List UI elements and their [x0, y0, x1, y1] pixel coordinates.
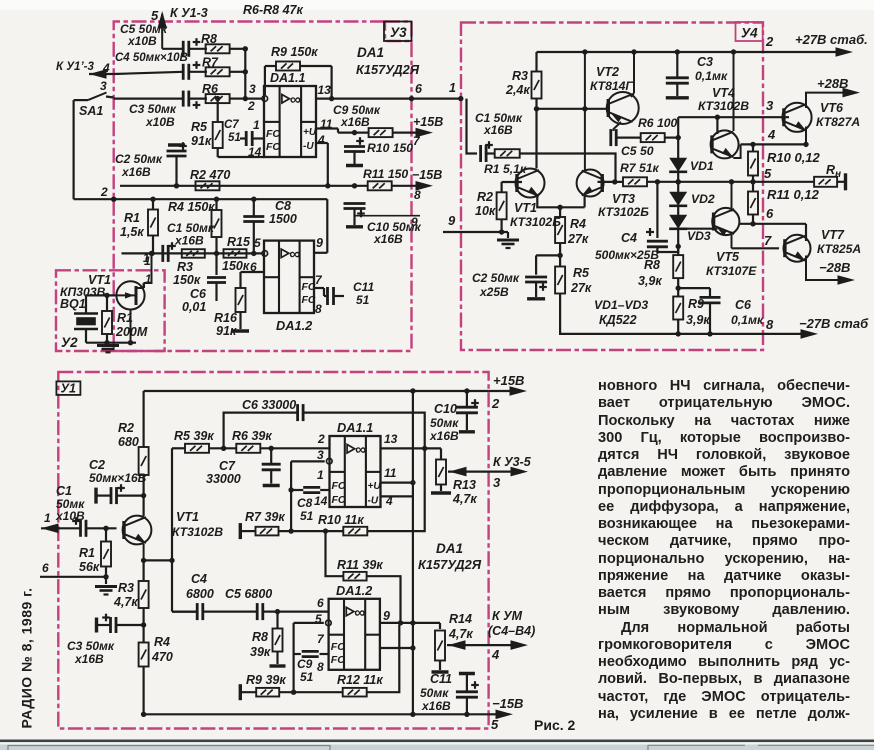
svg-text:R11 39к: R11 39к [337, 558, 383, 572]
svg-text:VT6: VT6 [820, 101, 844, 115]
svg-text:С4: С4 [621, 231, 637, 245]
svg-text:VD1–VD3: VD1–VD3 [594, 298, 648, 312]
svg-text:У4: У4 [741, 26, 758, 41]
svg-text:R15: R15 [227, 235, 251, 249]
svg-text:R16: R16 [214, 311, 238, 325]
svg-text:56к: 56к [79, 560, 100, 574]
svg-text:470: 470 [151, 650, 173, 664]
svg-text:С8: С8 [297, 496, 313, 510]
svg-text:С2: С2 [89, 458, 105, 472]
svg-text:27к: 27к [570, 281, 592, 295]
svg-text:х16В: х16В [174, 234, 204, 248]
svg-text:50мк: 50мк [420, 686, 449, 700]
svg-text:С8: С8 [275, 199, 291, 213]
svg-text:5: 5 [491, 717, 499, 732]
svg-text:R5 39к: R5 39к [174, 429, 214, 443]
svg-text:КД522: КД522 [599, 313, 637, 327]
svg-text:51: 51 [356, 293, 370, 307]
svg-text:3: 3 [317, 448, 324, 462]
svg-text:+27В стаб.: +27В стаб. [795, 32, 868, 47]
svg-text:6: 6 [415, 82, 423, 96]
svg-text:91к: 91к [216, 324, 237, 338]
svg-text:DA1.2: DA1.2 [336, 583, 372, 598]
svg-text:BQ1: BQ1 [60, 297, 86, 311]
svg-text:150к: 150к [173, 273, 201, 287]
svg-text:R3: R3 [512, 69, 528, 83]
svg-text:КТ3102В: КТ3102В [698, 99, 749, 113]
svg-text:5: 5 [254, 236, 261, 250]
svg-text:х16В: х16В [340, 115, 370, 129]
svg-text:R11 150: R11 150 [363, 167, 408, 181]
svg-text:VT2: VT2 [596, 65, 619, 79]
svg-text:КТ827А: КТ827А [816, 115, 860, 129]
svg-text:R7 39к: R7 39к [245, 510, 285, 524]
svg-text:R6-R8 47к: R6-R8 47к [243, 3, 303, 17]
svg-text:К157УД2Я: К157УД2Я [418, 557, 482, 572]
svg-text:К157УД2Я: К157УД2Я [356, 62, 420, 77]
svg-text:3: 3 [766, 98, 774, 113]
svg-text:FC: FC [266, 141, 280, 153]
svg-text:4,7к: 4,7к [452, 492, 477, 506]
svg-text:DA1: DA1 [436, 541, 463, 556]
svg-text:10к: 10к [475, 204, 496, 218]
svg-text:9: 9 [383, 609, 390, 623]
svg-text:1500: 1500 [269, 212, 297, 226]
svg-text:51: 51 [300, 670, 314, 684]
svg-text:К У1ʼ-3: К У1ʼ-3 [56, 61, 94, 73]
svg-text:FC: FC [332, 480, 346, 492]
svg-text:R10 0,12: R10 0,12 [767, 150, 821, 165]
svg-text:9: 9 [448, 213, 456, 228]
svg-text:1: 1 [145, 274, 151, 286]
svg-text:х16В: х16В [421, 699, 451, 713]
svg-text:∞: ∞ [289, 246, 300, 263]
svg-text:FC: FC [302, 294, 316, 306]
svg-text:R6 100: R6 100 [638, 116, 678, 130]
svg-text:х25В: х25В [479, 285, 509, 299]
svg-text:13: 13 [318, 83, 332, 97]
svg-text:VT3: VT3 [612, 192, 635, 206]
svg-text:−15В: −15В [492, 696, 523, 711]
svg-text:680: 680 [118, 435, 139, 449]
svg-text:х16В: х16В [429, 429, 459, 443]
svg-text:R7: R7 [202, 56, 219, 70]
svg-text:27к: 27к [567, 232, 589, 246]
svg-text:VT7: VT7 [821, 228, 845, 242]
svg-text:R4 150к: R4 150к [168, 200, 215, 214]
svg-text:5: 5 [151, 8, 159, 23]
svg-text:DA1: DA1 [357, 45, 384, 60]
svg-text:VT5: VT5 [716, 250, 740, 264]
svg-text:КТ825А: КТ825А [817, 242, 861, 256]
svg-text:9: 9 [411, 215, 418, 229]
svg-text:9: 9 [316, 236, 323, 250]
svg-text:R9 39к: R9 39к [246, 673, 286, 687]
svg-text:R7 51к: R7 51к [620, 161, 660, 175]
svg-text:VD1: VD1 [690, 159, 714, 173]
svg-text:51: 51 [300, 509, 314, 523]
svg-text:R9 150к: R9 150к [271, 45, 318, 59]
svg-text:+15В: +15В [413, 115, 443, 129]
svg-text:6: 6 [42, 561, 49, 575]
svg-text:1: 1 [317, 468, 324, 482]
svg-text:91к: 91к [191, 134, 212, 148]
svg-text:VT4: VT4 [712, 86, 735, 100]
svg-text:5: 5 [764, 166, 772, 181]
svg-text:7: 7 [764, 233, 772, 248]
svg-text:х10В: х10В [145, 115, 175, 129]
svg-text:С6 33000: С6 33000 [242, 398, 296, 412]
svg-text:FC: FC [331, 654, 345, 666]
svg-text:4: 4 [767, 127, 776, 142]
svg-text:С10: С10 [434, 402, 457, 416]
svg-text:3: 3 [100, 79, 107, 93]
svg-text:4,7к: 4,7к [113, 595, 138, 609]
svg-text:С5 50: С5 50 [621, 144, 654, 158]
svg-text:R6: R6 [202, 82, 219, 96]
svg-text:6800: 6800 [186, 587, 214, 601]
svg-text:R11 0,12: R11 0,12 [767, 187, 820, 202]
svg-text:∞: ∞ [354, 604, 365, 621]
svg-text:С3: С3 [697, 55, 713, 69]
svg-text:К У1-3: К У1-3 [170, 6, 208, 20]
svg-text:РАДИО № 8, 1989 г.: РАДИО № 8, 1989 г. [19, 588, 35, 729]
svg-text:14: 14 [314, 494, 328, 508]
svg-text:−28В: −28В [819, 260, 850, 275]
svg-text:У1: У1 [61, 382, 76, 396]
svg-text:1,5к: 1,5к [120, 225, 144, 239]
svg-text:-U: -U [303, 141, 314, 152]
svg-text:33000: 33000 [206, 472, 241, 486]
svg-text:R5: R5 [191, 120, 208, 134]
svg-text:11: 11 [384, 466, 397, 480]
svg-text:К УМ: К УМ [492, 609, 523, 623]
svg-text:С11: С11 [353, 280, 374, 294]
svg-text:R10 150: R10 150 [367, 141, 413, 155]
svg-text:R13: R13 [453, 478, 476, 492]
svg-text:VD2: VD2 [691, 192, 715, 206]
svg-text:51: 51 [228, 132, 241, 144]
svg-text:+U: +U [368, 481, 382, 492]
svg-text:0,1мк: 0,1мк [695, 69, 728, 83]
svg-text:КТ814Г: КТ814Г [590, 79, 633, 93]
svg-text:R8: R8 [201, 32, 217, 46]
svg-text:R: R [826, 163, 835, 177]
svg-text:0,1мк: 0,1мк [731, 313, 764, 327]
svg-text:С7: С7 [219, 459, 236, 473]
svg-text:2: 2 [317, 432, 325, 446]
svg-text:1: 1 [449, 81, 456, 95]
svg-text:FC: FC [332, 494, 346, 506]
svg-text:С2 50мк: С2 50мк [472, 271, 520, 285]
svg-text:С5 6800: С5 6800 [225, 587, 272, 601]
svg-text:С6: С6 [190, 287, 207, 301]
svg-text:50мк: 50мк [430, 416, 459, 430]
svg-text:R1: R1 [124, 211, 140, 225]
svg-text:н: н [835, 169, 841, 180]
svg-text:1: 1 [143, 253, 149, 265]
svg-text:+U: +U [303, 127, 317, 138]
svg-text:VD3: VD3 [687, 229, 711, 243]
svg-text:+15В: +15В [493, 373, 524, 388]
svg-text:4,7к: 4,7к [448, 627, 473, 641]
svg-text:С6: С6 [735, 298, 752, 312]
svg-text:х16В: х16В [483, 123, 513, 137]
svg-text:FC: FC [302, 281, 316, 293]
svg-text:FC: FC [331, 641, 345, 653]
svg-text:х16В: х16В [74, 652, 104, 666]
svg-text:(С4–В4): (С4–В4) [488, 624, 535, 638]
svg-text:R1 5,1к: R1 5,1к [484, 162, 527, 176]
svg-text:VT1: VT1 [514, 201, 537, 215]
svg-text:R4: R4 [570, 217, 586, 231]
svg-text:2: 2 [247, 99, 255, 113]
svg-text:4: 4 [102, 61, 110, 75]
svg-text:39к: 39к [250, 645, 271, 659]
svg-text:КТ3102В: КТ3102В [172, 525, 223, 539]
svg-text:8: 8 [766, 317, 774, 332]
svg-text:∞: ∞ [290, 92, 301, 109]
svg-text:R3: R3 [177, 260, 193, 274]
svg-text:С3 50мк: С3 50мк [129, 102, 177, 116]
svg-text:2: 2 [100, 185, 108, 199]
svg-text:К У3-5: К У3-5 [493, 455, 532, 469]
svg-text:С7: С7 [224, 119, 239, 131]
svg-text:С4 50мк×10В: С4 50мк×10В [115, 52, 188, 64]
svg-text:С4: С4 [191, 572, 207, 586]
svg-text:R14: R14 [449, 612, 472, 626]
svg-text:DA1.2: DA1.2 [276, 318, 312, 333]
svg-text:R2: R2 [477, 190, 493, 204]
svg-text:КТ3102Б: КТ3102Б [598, 205, 649, 219]
svg-text:R10 11к: R10 11к [318, 513, 364, 527]
svg-text:С2 50мк: С2 50мк [115, 152, 163, 166]
svg-text:1: 1 [253, 118, 260, 132]
svg-text:Рис. 2: Рис. 2 [534, 717, 576, 733]
svg-text:R3: R3 [118, 581, 134, 595]
svg-text:2: 2 [765, 34, 774, 49]
svg-text:DA1.1: DA1.1 [337, 420, 373, 435]
svg-text:∞: ∞ [355, 442, 366, 459]
svg-text:х16В: х16В [373, 232, 403, 246]
svg-text:6: 6 [766, 206, 774, 221]
svg-text:R12 11к: R12 11к [337, 673, 383, 687]
svg-text:0,01: 0,01 [182, 300, 206, 314]
svg-text:С1: С1 [56, 484, 72, 498]
svg-text:6: 6 [317, 596, 324, 610]
svg-text:R6 39к: R6 39к [232, 429, 272, 443]
svg-text:х16В: х16В [121, 165, 151, 179]
svg-text:У3: У3 [390, 25, 407, 40]
svg-text:С9: С9 [297, 657, 313, 671]
svg-text:R8: R8 [644, 258, 660, 272]
svg-text:8: 8 [317, 660, 324, 674]
svg-text:8: 8 [315, 302, 322, 316]
svg-text:С3 50мк: С3 50мк [67, 639, 115, 653]
svg-text:3,9к: 3,9к [638, 274, 662, 288]
svg-text:-U: -U [368, 496, 379, 507]
svg-text:R5: R5 [573, 266, 590, 280]
svg-text:+28В: +28В [817, 76, 848, 91]
svg-text:2: 2 [491, 396, 500, 411]
svg-text:−27В стаб: −27В стаб [799, 316, 869, 331]
svg-text:3,9к: 3,9к [686, 313, 710, 327]
svg-text:х10В: х10В [55, 509, 85, 523]
svg-text:КТ3102Б: КТ3102Б [510, 215, 561, 229]
svg-text:50мк×16В: 50мк×16В [89, 471, 147, 485]
svg-text:4: 4 [317, 133, 325, 147]
svg-text:8: 8 [414, 188, 421, 202]
svg-text:R2 470: R2 470 [190, 168, 230, 182]
svg-text:R2: R2 [118, 421, 134, 435]
svg-text:4: 4 [491, 647, 500, 662]
svg-text:С11: С11 [430, 672, 452, 686]
svg-text:х10В: х10В [127, 34, 157, 48]
svg-text:VT1: VT1 [176, 510, 199, 524]
svg-text:3: 3 [493, 475, 501, 490]
svg-text:FC: FC [266, 128, 280, 140]
svg-text:У2: У2 [61, 335, 78, 350]
svg-text:1: 1 [44, 511, 51, 525]
svg-text:R8: R8 [252, 630, 268, 644]
svg-text:R4: R4 [154, 635, 170, 649]
svg-text:2,4к: 2,4к [505, 83, 530, 97]
svg-text:DA1.1: DA1.1 [270, 71, 305, 85]
svg-text:SA1: SA1 [79, 104, 103, 118]
svg-text:3: 3 [249, 82, 256, 96]
svg-text:КТ3107Е: КТ3107Е [706, 264, 757, 278]
svg-text:13: 13 [384, 432, 398, 446]
svg-text:−15В: −15В [412, 168, 442, 182]
svg-text:R1: R1 [79, 546, 95, 560]
